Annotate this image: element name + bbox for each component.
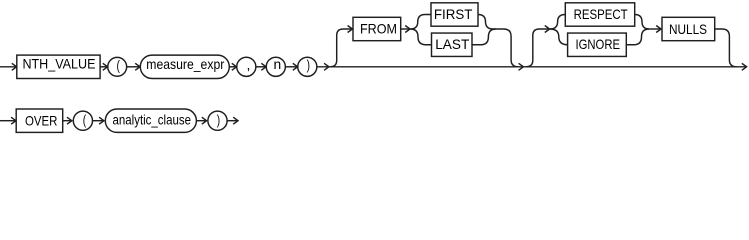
svg-text:n: n: [273, 57, 281, 72]
svg-text:NULLS: NULLS: [669, 22, 707, 37]
svg-text:FIRST: FIRST: [434, 7, 473, 22]
svg-text:measure_expr: measure_expr: [146, 57, 224, 72]
svg-text:IGNORE: IGNORE: [576, 37, 621, 52]
svg-text:NTH_VALUE: NTH_VALUE: [22, 57, 95, 72]
svg-text:(: (: [117, 58, 121, 73]
svg-text:): ): [307, 58, 310, 73]
svg-text:(: (: [83, 112, 87, 127]
svg-text:RESPECT: RESPECT: [574, 7, 628, 22]
svg-text:LAST: LAST: [435, 37, 470, 52]
svg-text:FROM: FROM: [360, 21, 397, 36]
svg-text:analytic_clause: analytic_clause: [113, 112, 192, 127]
svg-text:,: ,: [247, 57, 251, 73]
svg-text:): ): [217, 112, 220, 127]
svg-text:OVER: OVER: [25, 114, 58, 129]
